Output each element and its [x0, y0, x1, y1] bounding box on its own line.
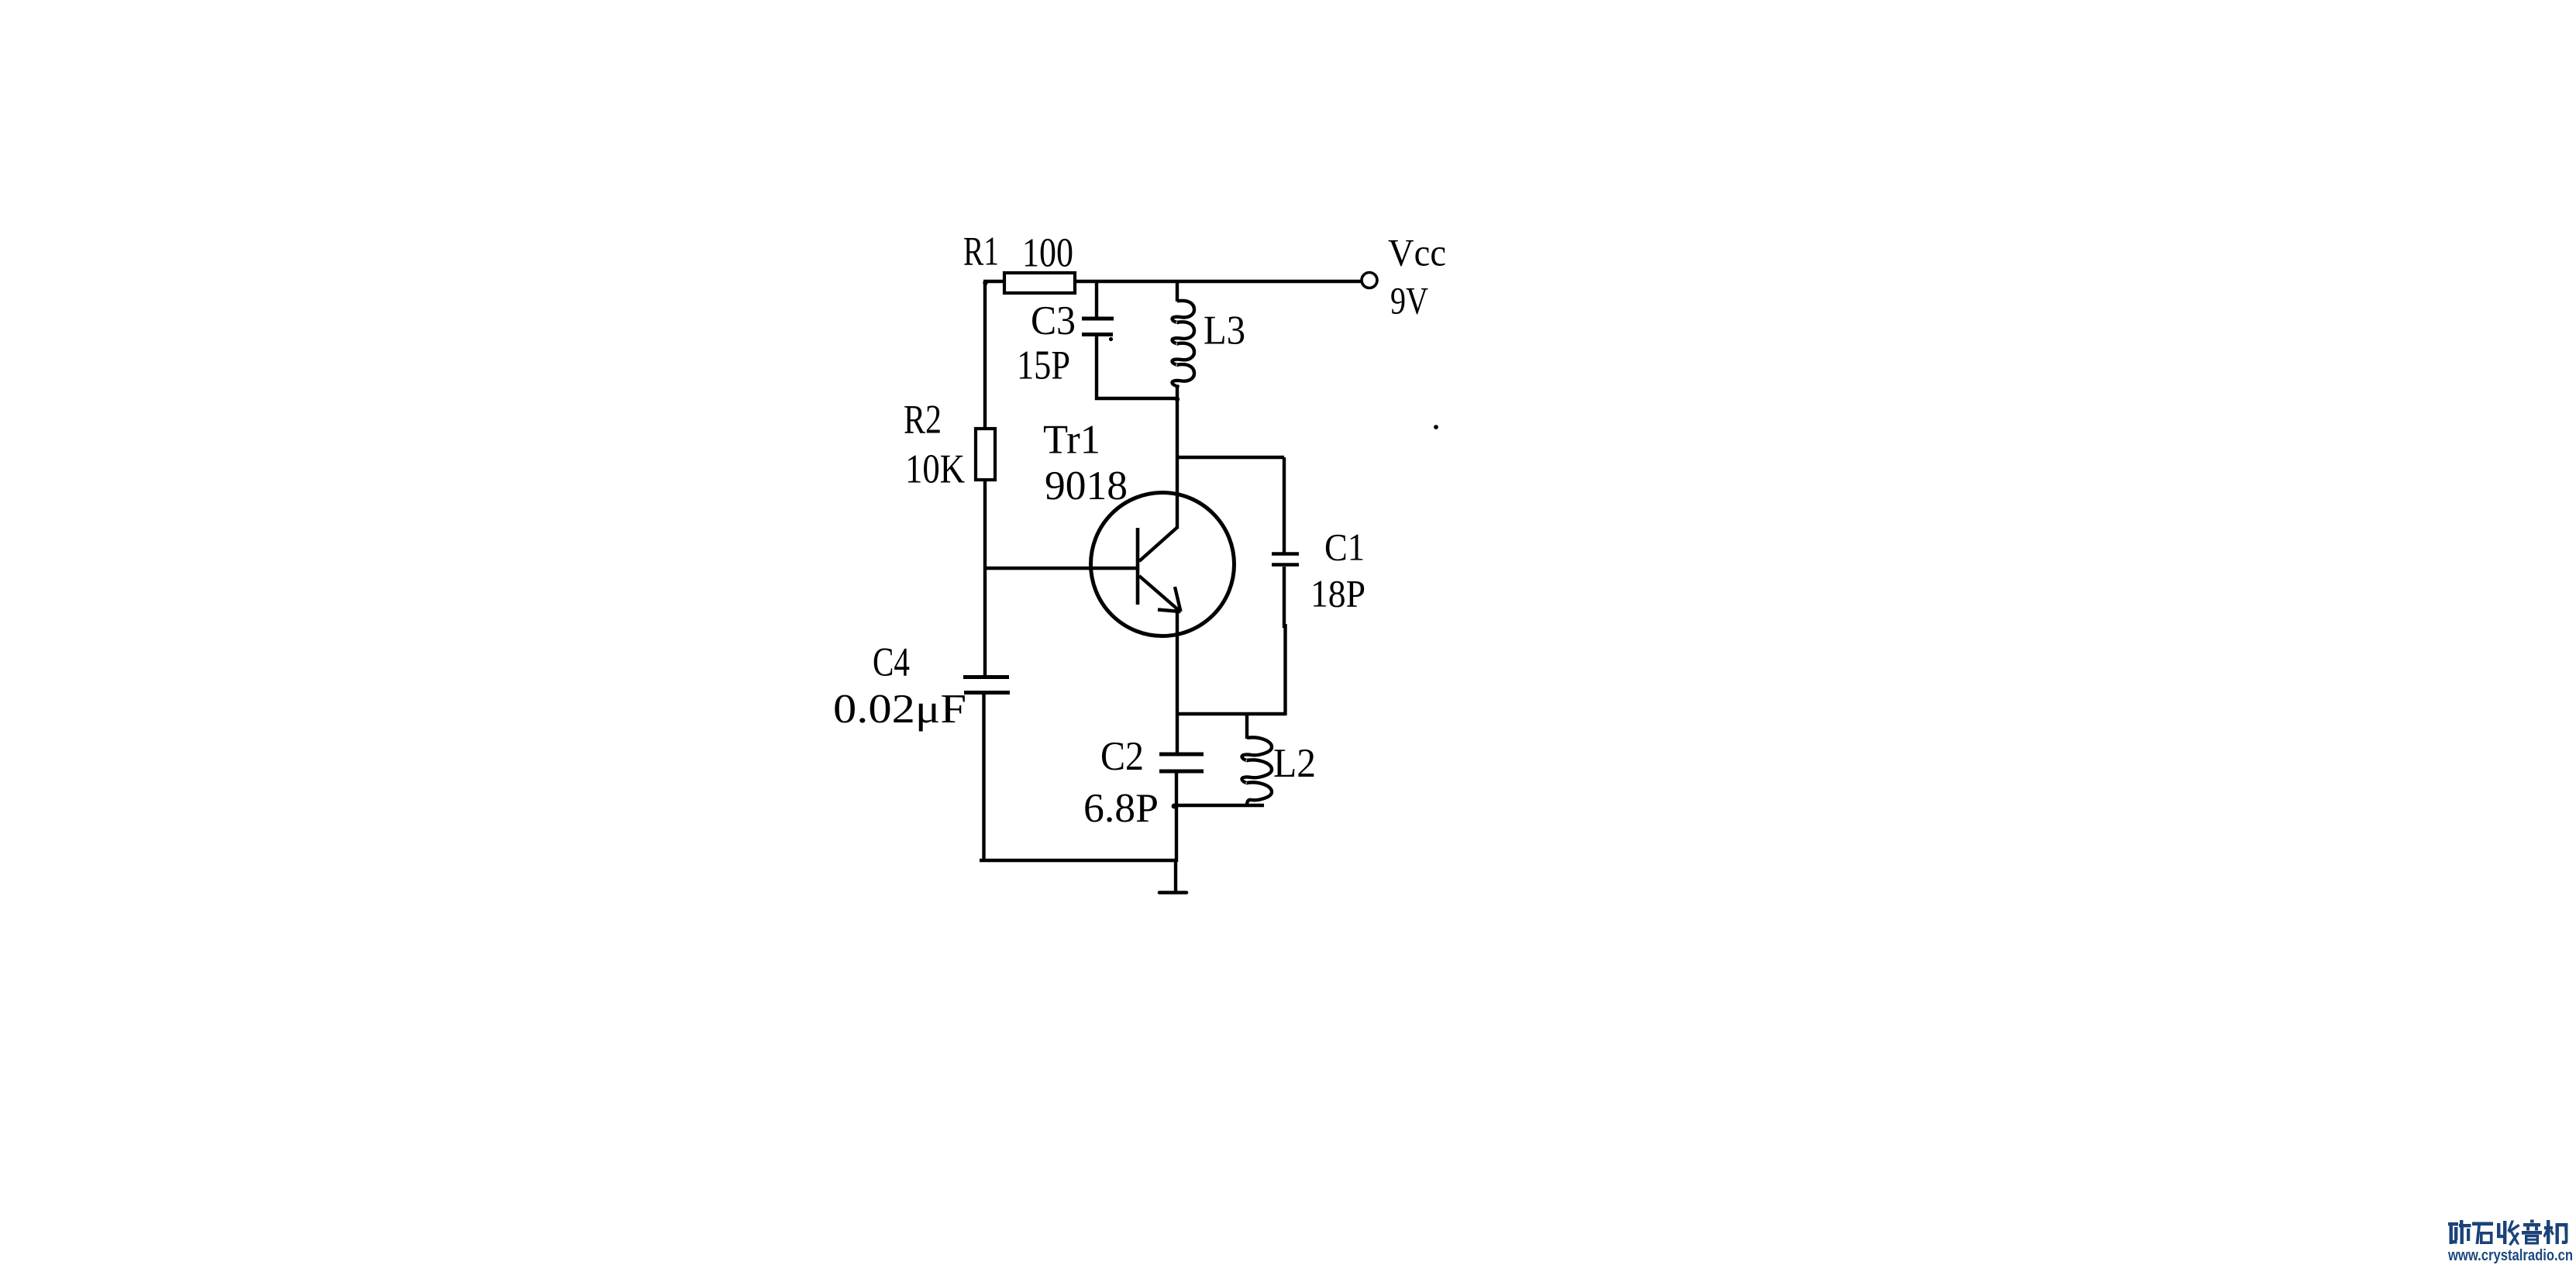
wire top-left nub into R1 — [983, 280, 1005, 283]
wire left rail lower — [983, 480, 987, 676]
resistor R1 — [1004, 273, 1075, 293]
svg-text:C4: C4 — [873, 640, 910, 685]
watermark logo — [2447, 1220, 2573, 1265]
svg-text:6.8P: 6.8P — [1083, 786, 1159, 831]
capacitor C3 — [1082, 281, 1114, 400]
char shou — [2497, 1221, 2520, 1246]
wire Vcc rail top — [1075, 280, 1362, 283]
inductor L2 — [1242, 714, 1273, 805]
ground — [1159, 860, 1186, 893]
node L2-C2 junction — [1172, 804, 1177, 809]
char ji — [2543, 1220, 2568, 1244]
char kuang — [2448, 1220, 2471, 1244]
inductor L3 — [1173, 281, 1195, 400]
svg-text:18P: 18P — [1310, 572, 1365, 615]
svg-text:L2: L2 — [1273, 741, 1316, 786]
svg-text:0.02μF: 0.02μF — [833, 687, 966, 732]
wire collector column — [1176, 398, 1179, 529]
wire emitter node to C1 — [1177, 712, 1286, 715]
svg-text:15P: 15P — [1017, 343, 1070, 388]
node L3 bottom — [1175, 397, 1180, 402]
capacitor C4 — [963, 677, 1010, 863]
svg-text:Tr1: Tr1 — [1043, 418, 1100, 463]
svg-text:10K: 10K — [905, 447, 965, 492]
svg-text:R1: R1 — [963, 229, 999, 274]
wire collector to C1 — [1177, 456, 1284, 459]
svg-text:Vcc: Vcc — [1388, 231, 1446, 274]
svg-text:100: 100 — [1022, 231, 1073, 276]
wire bottom — [980, 859, 1177, 862]
wire L2 bottom — [1173, 804, 1264, 807]
svg-text:9V: 9V — [1390, 279, 1428, 322]
node left-rail top junction — [983, 281, 987, 285]
svg-text:9018: 9018 — [1045, 464, 1128, 508]
svg-text:C3: C3 — [1031, 298, 1076, 343]
svg-text:L3: L3 — [1204, 308, 1245, 353]
capacitor C2 — [1159, 754, 1204, 862]
char yin — [2522, 1220, 2542, 1245]
wire C3-L3 bottom junction — [1095, 397, 1179, 400]
svg-text:www.crystalradio.cn: www.crystalradio.cn — [2447, 1247, 2573, 1264]
char shi — [2472, 1222, 2493, 1245]
transistor Tr1 — [1091, 493, 1235, 636]
capacitor C1 — [1272, 457, 1299, 715]
svg-text:R2: R2 — [904, 398, 942, 443]
svg-text:C1: C1 — [1324, 526, 1365, 569]
node stray dot right — [1434, 425, 1438, 429]
resistor R2 — [976, 429, 995, 480]
terminal Vcc — [1362, 273, 1377, 288]
wire emitter column — [1176, 612, 1179, 753]
wire base — [985, 567, 1138, 570]
wire left rail upper — [983, 281, 987, 430]
svg-text:C2: C2 — [1100, 734, 1144, 779]
